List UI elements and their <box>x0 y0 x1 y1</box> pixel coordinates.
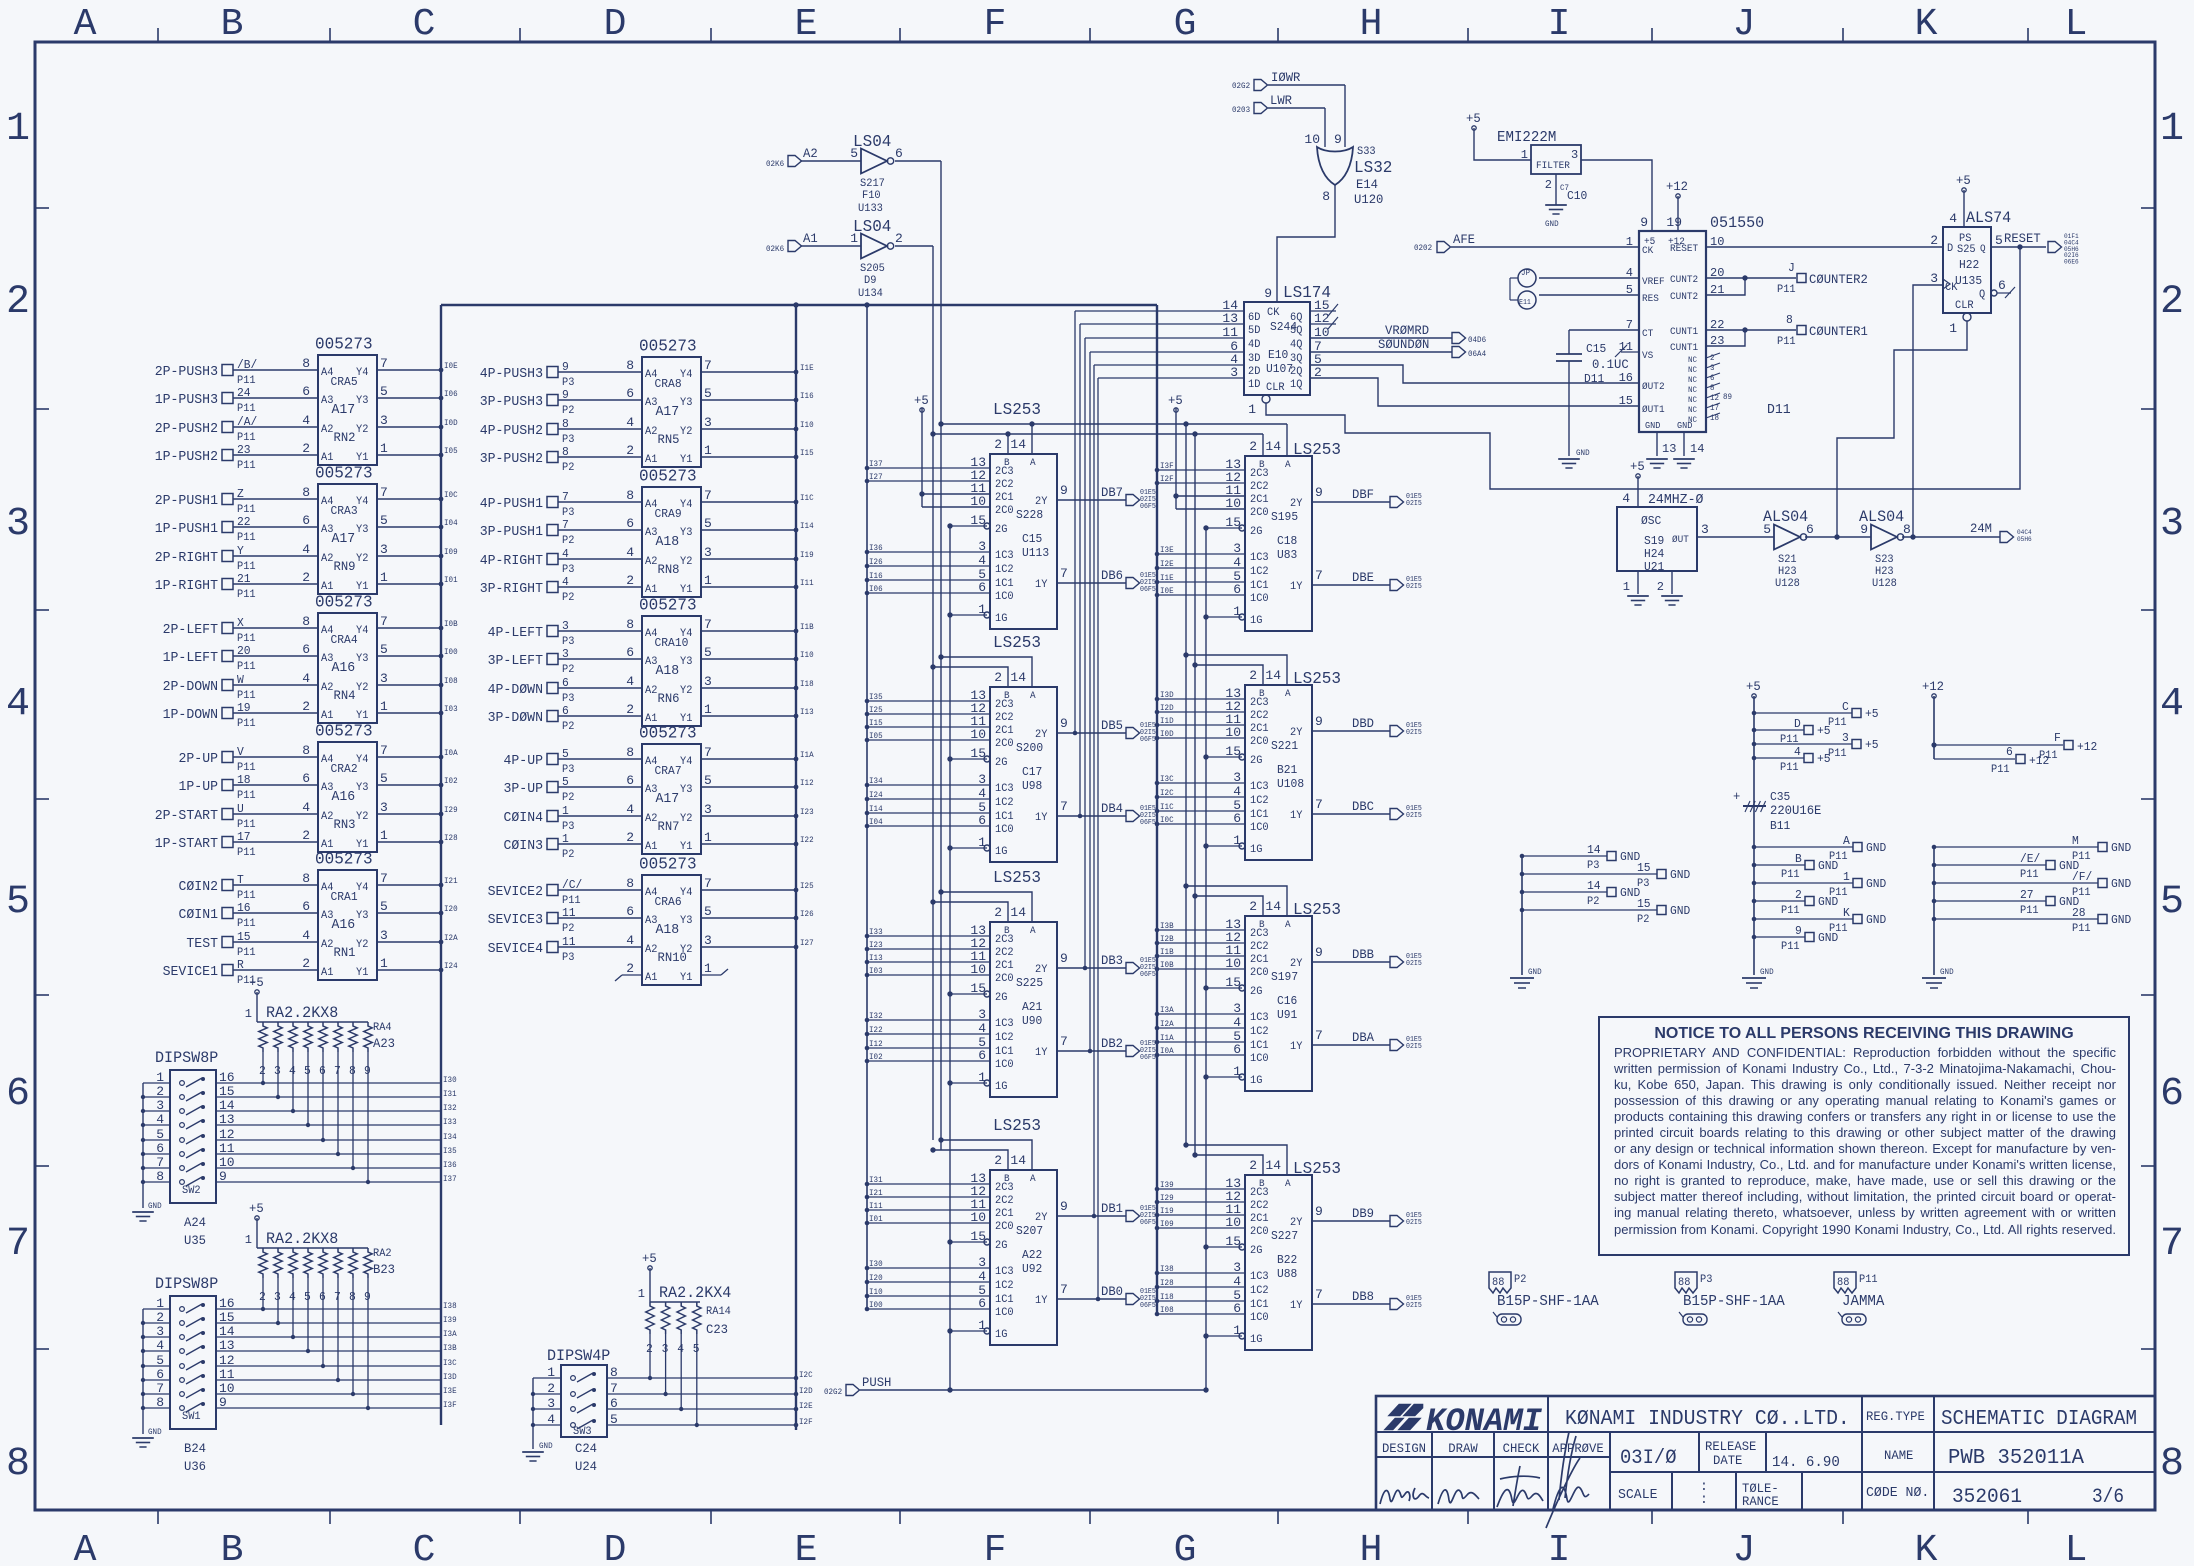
svg-text:I28: I28 <box>444 834 458 843</box>
svg-text:I30: I30 <box>443 1076 457 1085</box>
svg-text:P2: P2 <box>562 923 574 935</box>
svg-text:02I5: 02I5 <box>1406 500 1422 508</box>
svg-text:E11: E11 <box>1519 299 1531 307</box>
svg-text:F: F <box>984 1529 1007 1566</box>
svg-text:20: 20 <box>237 644 251 658</box>
resistor array RN2 (CRA5) 005273 <box>155 336 458 473</box>
svg-text:16: 16 <box>237 901 251 915</box>
svg-text:I05: I05 <box>869 732 883 741</box>
svg-text:Q: Q <box>1980 244 1986 255</box>
svg-text:+5: +5 <box>1817 724 1831 738</box>
svg-text:SW3: SW3 <box>573 1426 592 1438</box>
svg-text:P11: P11 <box>1991 764 2010 776</box>
svg-text:8: 8 <box>302 614 310 629</box>
svg-text:1: 1 <box>638 1287 645 1301</box>
svg-text:2C3: 2C3 <box>1250 1187 1269 1199</box>
svg-text:352061: 352061 <box>1952 1486 2022 1509</box>
svg-text:/C/: /C/ <box>562 878 582 892</box>
svg-text:U120: U120 <box>1354 192 1383 207</box>
svg-text:S227: S227 <box>1271 1229 1298 1243</box>
svg-text:TEST: TEST <box>186 936 218 952</box>
svg-text:CK: CK <box>1267 307 1280 319</box>
svg-text:CRA1: CRA1 <box>331 890 358 904</box>
svg-text:4P-DØWN: 4P-DØWN <box>488 682 543 698</box>
svg-text:I03: I03 <box>444 705 458 714</box>
svg-text:JP: JP <box>1521 269 1530 278</box>
svg-text:REG.TYPE: REG.TYPE <box>1866 1409 1925 1424</box>
node +5 pull-up left mux <box>914 393 990 507</box>
svg-text:2C3: 2C3 <box>1250 697 1269 709</box>
svg-text:I2F: I2F <box>799 1418 813 1427</box>
svg-text:+5: +5 <box>1466 111 1481 126</box>
svg-text:FILTER: FILTER <box>1536 161 1570 172</box>
svg-text:1C2: 1C2 <box>995 1280 1014 1292</box>
svg-text:11: 11 <box>562 906 576 920</box>
svg-text:I0A: I0A <box>1160 1047 1174 1056</box>
svg-text:5: 5 <box>380 642 388 657</box>
svg-text:B: B <box>221 1529 244 1566</box>
svg-text:RA14: RA14 <box>706 1306 731 1318</box>
svg-text:A: A <box>1030 926 1036 937</box>
svg-text:2Y: 2Y <box>1290 1217 1303 1229</box>
svg-text:DBB: DBB <box>1352 947 1374 962</box>
svg-text:5: 5 <box>380 771 388 786</box>
svg-text:9: 9 <box>1315 714 1323 729</box>
svg-text:U113: U113 <box>1022 546 1049 560</box>
svg-text:1P-RIGHT: 1P-RIGHT <box>155 578 218 594</box>
svg-text:P11: P11 <box>1781 869 1800 881</box>
svg-text:GND: GND <box>1866 913 1886 927</box>
svg-text:4: 4 <box>1622 491 1630 506</box>
svg-text:2C1: 2C1 <box>995 725 1014 737</box>
svg-text:1: 1 <box>1521 148 1528 162</box>
svg-text:U36: U36 <box>184 1459 206 1474</box>
svg-text:I1E: I1E <box>800 364 814 373</box>
svg-text:8: 8 <box>626 876 634 891</box>
svg-text:Y1: Y1 <box>356 967 369 979</box>
svg-text:1: 1 <box>380 441 388 456</box>
svg-text:14: 14 <box>1265 668 1281 683</box>
svg-text:I24: I24 <box>444 962 458 971</box>
svg-text:A16: A16 <box>332 917 356 933</box>
svg-text:I09: I09 <box>1160 1220 1174 1229</box>
svg-text:A1: A1 <box>645 584 658 596</box>
svg-text:15: 15 <box>1637 897 1651 911</box>
svg-text:7: 7 <box>1060 566 1068 581</box>
svg-text:I: I <box>1548 3 1571 46</box>
svg-text:02I5: 02I5 <box>1406 1219 1422 1227</box>
svg-text:P11: P11 <box>237 718 256 730</box>
svg-text:F: F <box>984 3 1007 46</box>
svg-text:Y2: Y2 <box>680 813 692 825</box>
svg-text:4: 4 <box>1949 211 1957 226</box>
svg-text:A3: A3 <box>645 527 657 539</box>
svg-text:A2: A2 <box>321 553 333 565</box>
svg-text:A1: A1 <box>645 972 658 984</box>
svg-text:I36: I36 <box>443 1161 457 1170</box>
svg-text:2C3: 2C3 <box>995 699 1014 711</box>
svg-text:NC: NC <box>1688 376 1697 385</box>
svg-text:H: H <box>1360 3 1383 46</box>
svg-text:1G: 1G <box>1250 1334 1262 1346</box>
svg-text:H24: H24 <box>1644 547 1664 561</box>
svg-text:5: 5 <box>6 880 30 925</box>
svg-text:P11: P11 <box>1828 717 1847 729</box>
svg-text:02K6: 02K6 <box>766 160 784 169</box>
svg-text:I0D: I0D <box>1160 730 1174 739</box>
svg-text:2: 2 <box>626 961 634 976</box>
svg-text:I25: I25 <box>800 882 814 891</box>
svg-text:4P-PUSH3: 4P-PUSH3 <box>480 366 543 382</box>
svg-text:CUNT1: CUNT1 <box>1670 327 1698 338</box>
svg-text:3: 3 <box>380 671 388 686</box>
svg-text:DATE: DATE <box>1713 1453 1743 1468</box>
svg-text:RA2.2KX4: RA2.2KX4 <box>659 1284 731 1302</box>
dip switch SW3 DIPSW4P (C24) <box>522 1347 813 1474</box>
svg-text:I14: I14 <box>869 805 883 814</box>
svg-text:DB7: DB7 <box>1101 485 1123 500</box>
svg-text:2: 2 <box>2160 280 2184 325</box>
svg-text:2Y: 2Y <box>1290 958 1303 970</box>
svg-text:6: 6 <box>626 386 634 401</box>
svg-text:4: 4 <box>302 800 310 815</box>
svg-text:I02: I02 <box>869 1053 883 1062</box>
svg-text:2: 2 <box>6 280 30 325</box>
svg-text:2G: 2G <box>995 757 1007 769</box>
svg-text:I27: I27 <box>869 473 883 482</box>
svg-text:11: 11 <box>1222 325 1238 340</box>
svg-text:1C0: 1C0 <box>995 824 1014 836</box>
svg-text:LS253: LS253 <box>993 401 1041 420</box>
svg-text:1: 1 <box>1949 321 1957 336</box>
svg-text:I0C: I0C <box>1160 816 1174 825</box>
svg-text:GND: GND <box>1818 859 1838 873</box>
svg-text:02I5: 02I5 <box>1406 583 1422 591</box>
svg-text:PWB 352011A: PWB 352011A <box>1948 1447 2084 1470</box>
svg-text:A4: A4 <box>645 756 658 768</box>
svg-text:A3: A3 <box>321 524 333 536</box>
svg-text:U135: U135 <box>1955 274 1982 288</box>
svg-text:89: 89 <box>1723 393 1732 402</box>
svg-text:2P-LEFT: 2P-LEFT <box>163 622 218 638</box>
svg-text:B: B <box>1795 852 1802 866</box>
svg-text:CRA7: CRA7 <box>655 764 682 778</box>
svg-text:GND: GND <box>1866 877 1886 891</box>
svg-text:8: 8 <box>1786 313 1793 327</box>
svg-text:6: 6 <box>6 1072 30 1117</box>
svg-text:2: 2 <box>994 905 1002 920</box>
svg-text:4: 4 <box>562 575 569 589</box>
svg-text:7: 7 <box>1315 568 1323 583</box>
svg-text:3P-RIGHT: 3P-RIGHT <box>480 581 543 597</box>
svg-text:Y1: Y1 <box>680 841 693 853</box>
svg-text:14: 14 <box>1587 843 1601 857</box>
svg-text:2: 2 <box>302 441 310 456</box>
svg-text:LS253: LS253 <box>1293 670 1341 689</box>
svg-text::: : <box>1700 1492 1708 1508</box>
svg-text:Y3: Y3 <box>680 784 692 796</box>
resistor array RN5 (CRA8) 005273 <box>480 338 814 475</box>
inverter U134 LS04 <box>766 218 933 300</box>
svg-text:GND: GND <box>1940 968 1954 977</box>
svg-text:I00: I00 <box>444 648 458 657</box>
svg-text:7: 7 <box>380 356 388 371</box>
svg-text:LS253: LS253 <box>993 1117 1041 1136</box>
svg-text:1C0: 1C0 <box>995 1307 1014 1319</box>
svg-text:9: 9 <box>1640 215 1648 230</box>
svg-text:B: B <box>221 3 244 46</box>
svg-text:1C1: 1C1 <box>1250 1040 1269 1052</box>
resistor array RN1 (CRA1) 005273 <box>163 851 458 988</box>
svg-text:3: 3 <box>704 545 712 560</box>
svg-text:I27: I27 <box>800 939 814 948</box>
svg-text:I35: I35 <box>869 693 883 702</box>
svg-text:A1: A1 <box>645 454 658 466</box>
svg-text:SEVICE2: SEVICE2 <box>488 884 543 900</box>
svg-text:I3C: I3C <box>1160 775 1174 784</box>
svg-text:5: 5 <box>850 146 858 161</box>
svg-text:9: 9 <box>1315 485 1323 500</box>
svg-text:I33: I33 <box>443 1118 457 1127</box>
svg-text:C: C <box>413 1529 436 1566</box>
svg-text:U128: U128 <box>1872 578 1897 590</box>
svg-text:2G: 2G <box>995 1240 1007 1252</box>
svg-text:GND: GND <box>1760 968 1774 977</box>
svg-text:A3: A3 <box>645 915 657 927</box>
svg-text:RA2: RA2 <box>373 1248 392 1260</box>
svg-text:SEVICE4: SEVICE4 <box>488 941 543 957</box>
svg-text:3P-PUSH2: 3P-PUSH2 <box>480 451 543 467</box>
svg-text:3: 3 <box>1571 148 1578 162</box>
svg-text:7: 7 <box>704 617 712 632</box>
svg-text:DB2: DB2 <box>1101 1036 1123 1051</box>
svg-text:RANCE: RANCE <box>1742 1494 1779 1509</box>
svg-text:U24: U24 <box>575 1459 597 1474</box>
svg-text:J: J <box>1733 1529 1756 1566</box>
svg-text:K: K <box>1915 3 1938 46</box>
svg-text:3P-PUSH3: 3P-PUSH3 <box>480 394 543 410</box>
svg-text:DBC: DBC <box>1352 799 1374 814</box>
svg-text:C24: C24 <box>575 1441 597 1456</box>
svg-text:I31: I31 <box>869 1176 883 1185</box>
svg-text:1C0: 1C0 <box>995 591 1014 603</box>
svg-text:4P-UP: 4P-UP <box>504 753 544 769</box>
svg-text:+5: +5 <box>1630 459 1645 474</box>
svg-text:RN2: RN2 <box>334 430 356 445</box>
svg-text:S244: S244 <box>1270 320 1297 334</box>
svg-text:1C0: 1C0 <box>1250 1312 1269 1324</box>
svg-text:Y1: Y1 <box>356 710 369 722</box>
svg-text:9: 9 <box>1060 483 1068 498</box>
dip switch SW1 DIPSW8P (B24) <box>132 1275 457 1474</box>
svg-text:I0B: I0B <box>1160 961 1174 970</box>
svg-text:CØIN1: CØIN1 <box>179 907 219 923</box>
svg-text:6: 6 <box>302 513 310 528</box>
svg-text:4: 4 <box>6 682 30 727</box>
svg-text:06F5: 06F5 <box>1140 1054 1156 1062</box>
svg-text:P11: P11 <box>1828 748 1847 760</box>
svg-text:I19: I19 <box>800 551 814 560</box>
svg-text:7: 7 <box>380 614 388 629</box>
svg-text:CØIN4: CØIN4 <box>504 810 544 826</box>
svg-text:SEVICE1: SEVICE1 <box>163 964 218 980</box>
svg-text:ØUT: ØUT <box>1672 534 1689 546</box>
resistor array RN6 (CRA10) 005273 <box>488 597 814 734</box>
svg-text:M: M <box>2072 834 2079 848</box>
svg-text:A3: A3 <box>321 782 333 794</box>
svg-text:GND: GND <box>1670 868 1690 882</box>
svg-text:6: 6 <box>626 904 634 919</box>
svg-text:I11: I11 <box>869 1202 883 1211</box>
svg-text:7: 7 <box>1060 1282 1068 1297</box>
wire left mux input trunk <box>864 302 869 1309</box>
svg-text:9: 9 <box>562 360 569 374</box>
svg-text:15: 15 <box>237 930 251 944</box>
svg-text:I2B: I2B <box>1160 935 1174 944</box>
svg-text:K: K <box>1843 906 1851 920</box>
svg-text:2G: 2G <box>1250 986 1262 998</box>
svg-text:19: 19 <box>1666 215 1682 230</box>
svg-text:RN4: RN4 <box>334 688 356 703</box>
svg-text:GND: GND <box>1645 421 1660 431</box>
resistor array RN9 (CRA3) 005273 <box>155 465 458 602</box>
svg-text:I0C: I0C <box>444 491 458 500</box>
svg-text:I3D: I3D <box>1160 691 1174 700</box>
svg-text:1Q: 1Q <box>1290 379 1303 391</box>
svg-text:CUNT2: CUNT2 <box>1670 275 1698 286</box>
svg-text:1C3: 1C3 <box>995 550 1014 562</box>
connector P11 JAMMA <box>1834 1272 1884 1325</box>
custom chip 051550 (D11) <box>1414 179 1943 468</box>
svg-text:1C1: 1C1 <box>995 1294 1014 1306</box>
node IOWR input <box>1232 70 1345 147</box>
svg-text:2: 2 <box>302 956 310 971</box>
svg-text:C35: C35 <box>1770 790 1790 804</box>
svg-text:GND: GND <box>1818 895 1838 909</box>
svg-text:LWR: LWR <box>1270 93 1292 108</box>
svg-text:A4: A4 <box>321 625 334 637</box>
svg-text:SØUNDØN: SØUNDØN <box>1378 337 1429 352</box>
svg-text:I39: I39 <box>443 1316 457 1325</box>
svg-text:2P-PUSH2: 2P-PUSH2 <box>155 421 218 437</box>
svg-text:A: A <box>74 3 97 46</box>
svg-text:P11: P11 <box>237 460 256 472</box>
svg-text:2: 2 <box>1249 668 1257 683</box>
svg-text:005273: 005273 <box>315 851 373 870</box>
svg-text:3: 3 <box>562 619 569 633</box>
svg-text:APPRØVE: APPRØVE <box>1552 1441 1604 1456</box>
wire right mux input trunk <box>1156 305 1158 1314</box>
svg-text:7: 7 <box>380 743 388 758</box>
svg-text:P2: P2 <box>562 405 574 417</box>
svg-text:2: 2 <box>994 1153 1002 1168</box>
svg-text:14: 14 <box>1010 1153 1026 1168</box>
svg-text:GND: GND <box>1866 841 1886 855</box>
svg-text:A: A <box>1030 458 1036 469</box>
svg-text:I0E: I0E <box>1160 587 1174 596</box>
svg-text:+12: +12 <box>1666 179 1688 194</box>
svg-text:LS253: LS253 <box>1293 441 1341 460</box>
svg-text:Y2: Y2 <box>680 685 692 697</box>
svg-text:22: 22 <box>237 515 251 529</box>
svg-text:2Y: 2Y <box>1290 727 1303 739</box>
svg-text:P11: P11 <box>1780 762 1799 774</box>
svg-text:2C1: 2C1 <box>1250 1213 1269 1225</box>
svg-text:CØIN3: CØIN3 <box>504 838 544 854</box>
svg-text:DB0: DB0 <box>1101 1284 1123 1299</box>
svg-text:A3: A3 <box>321 653 333 665</box>
svg-text:C23: C23 <box>706 1322 728 1337</box>
svg-text:220U16E: 220U16E <box>1770 803 1822 818</box>
svg-text:Y4: Y4 <box>680 369 693 381</box>
svg-text:1: 1 <box>380 956 388 971</box>
svg-text:I38: I38 <box>443 1302 457 1311</box>
svg-text:3: 3 <box>380 800 388 815</box>
svg-text:Y3: Y3 <box>356 910 368 922</box>
svg-text:2: 2 <box>1545 178 1552 192</box>
svg-text:8: 8 <box>626 745 634 760</box>
svg-text:1C1: 1C1 <box>1250 580 1269 592</box>
svg-text:D: D <box>604 3 627 46</box>
svg-text:06F5: 06F5 <box>1140 1219 1156 1227</box>
svg-text:A3: A3 <box>645 784 657 796</box>
svg-text:1G: 1G <box>995 1081 1007 1093</box>
svg-text:S23: S23 <box>1875 554 1894 566</box>
svg-text:A3: A3 <box>321 395 333 407</box>
svg-text:1: 1 <box>380 699 388 714</box>
svg-text:E: E <box>795 1529 818 1566</box>
svg-text:02G2: 02G2 <box>824 1388 842 1397</box>
svg-text:A18: A18 <box>656 534 680 550</box>
svg-text:Y1: Y1 <box>680 972 693 984</box>
svg-text:P11: P11 <box>1859 1274 1878 1286</box>
mux U90 LS253 (S225) <box>970 869 1155 1097</box>
svg-text:I12: I12 <box>800 779 814 788</box>
svg-text:E: E <box>795 3 818 46</box>
svg-text:RES: RES <box>1642 294 1659 305</box>
svg-text:2: 2 <box>1249 899 1257 914</box>
svg-text:A4: A4 <box>321 754 334 766</box>
svg-text:8: 8 <box>302 743 310 758</box>
svg-text:H23: H23 <box>1875 566 1894 578</box>
svg-text:+5: +5 <box>249 1201 264 1216</box>
svg-text:I09: I09 <box>444 548 458 557</box>
svg-text:3: 3 <box>6 502 30 547</box>
svg-text:4: 4 <box>626 545 634 560</box>
svg-text:U35: U35 <box>184 1233 206 1248</box>
svg-text:2G: 2G <box>995 524 1007 536</box>
svg-text:G: G <box>1174 3 1197 46</box>
svg-text:5: 5 <box>380 384 388 399</box>
svg-text:I37: I37 <box>443 1175 457 1184</box>
svg-text:S200: S200 <box>1016 741 1043 755</box>
svg-text:3: 3 <box>380 542 388 557</box>
svg-text:14: 14 <box>1265 1158 1281 1173</box>
svg-text:1C3: 1C3 <box>995 1018 1014 1030</box>
svg-text:4Q: 4Q <box>1290 339 1303 351</box>
svg-text:3: 3 <box>2160 502 2184 547</box>
svg-text:2C3: 2C3 <box>995 934 1014 946</box>
filter EMI222M + capacitor C10 <box>1466 111 1652 231</box>
svg-text:Y3: Y3 <box>356 653 368 665</box>
svg-text:2C1: 2C1 <box>995 492 1014 504</box>
svg-text:1G: 1G <box>1250 1075 1262 1087</box>
svg-text:21: 21 <box>237 572 251 586</box>
svg-text:005273: 005273 <box>315 594 373 613</box>
svg-text:06F5: 06F5 <box>1140 736 1156 744</box>
svg-text:14: 14 <box>1587 879 1601 893</box>
svg-text:8: 8 <box>1322 189 1330 204</box>
